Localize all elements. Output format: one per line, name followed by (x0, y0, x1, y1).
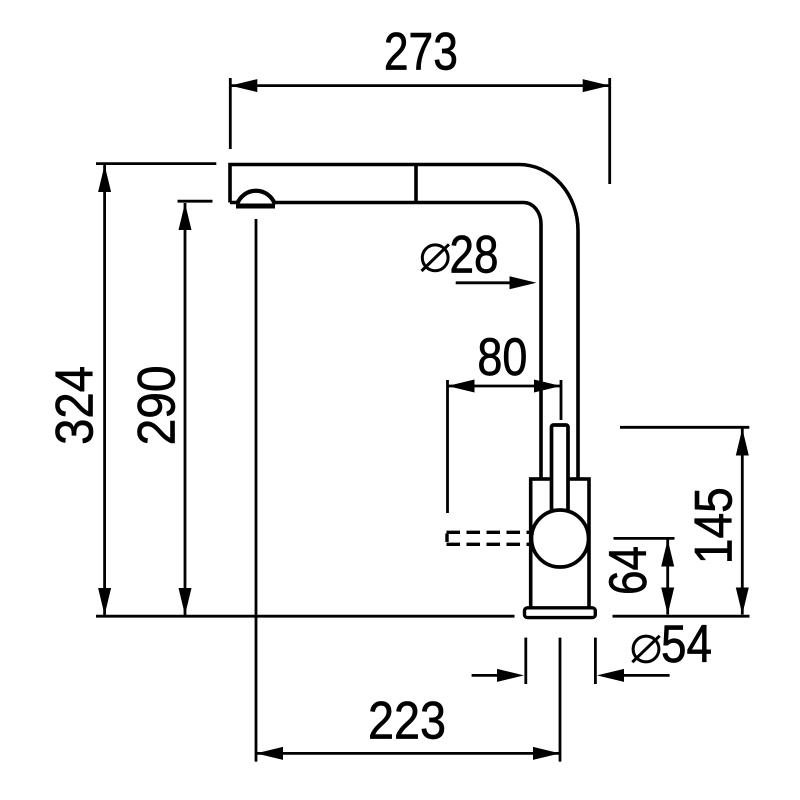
svg-text:80: 80 (477, 328, 527, 387)
dimension 80 line (448, 385, 562, 388)
dimension 64 line (666, 540, 669, 615)
base plate (525, 608, 596, 618)
svg-text:54: 54 (661, 615, 712, 674)
aerator nozzle dome (237, 191, 275, 205)
svg-text:145: 145 (685, 487, 744, 564)
dimension 223 arrows (256, 747, 560, 760)
dimension 223 line (256, 752, 560, 755)
diameter 28 leader line (456, 281, 520, 284)
diameter 54 symbol (632, 636, 659, 662)
dimension 273 arrows (230, 79, 609, 92)
svg-text:223: 223 (368, 692, 446, 751)
svg-text:28: 28 (450, 226, 499, 285)
diameter 54 leader line (612, 674, 670, 677)
dimension 145 line (741, 429, 744, 615)
base left leader line (472, 674, 510, 677)
dimension 64 extension line (614, 537, 675, 540)
spray head divider line (414, 165, 418, 203)
diameter 28 symbol (422, 244, 450, 271)
dimension 145 arrows (736, 429, 749, 615)
dimension 290 extension line (178, 200, 213, 203)
counter top line (96, 615, 750, 618)
dimension 64 arrows (661, 540, 674, 615)
svg-text:64: 64 (599, 546, 658, 595)
dimension 324 extension line (96, 162, 216, 165)
aerator base lip (236, 204, 275, 209)
dimension 290 arrows (179, 203, 192, 615)
dimension 324 line (103, 165, 106, 615)
body centre line (559, 638, 562, 762)
dimension 145 extension line (620, 426, 749, 429)
dimension 273 extension lines (230, 78, 609, 184)
lever handle (552, 425, 569, 515)
mixer body (531, 479, 589, 609)
dimension 290 line (184, 203, 187, 615)
svg-text:273: 273 (384, 23, 458, 82)
diameter 28 leader arrow (510, 276, 537, 289)
spout outlet centre line (255, 219, 258, 762)
pull-out hose dashed outline (447, 532, 531, 544)
diameter 54 leader arrow (597, 669, 624, 682)
base plate extension lines (526, 638, 596, 684)
faucet spout and riser pipe outline (230, 165, 578, 478)
svg-text:324: 324 (46, 366, 105, 445)
lever joint circle (532, 510, 589, 567)
dimension 273 line (230, 84, 609, 87)
dimension 80 extension lines (448, 380, 562, 513)
svg-text:290: 290 (128, 365, 187, 445)
dimension 80 arrows (448, 380, 562, 393)
base left leader arrow (497, 669, 524, 682)
dimension 324 arrows (98, 165, 111, 615)
